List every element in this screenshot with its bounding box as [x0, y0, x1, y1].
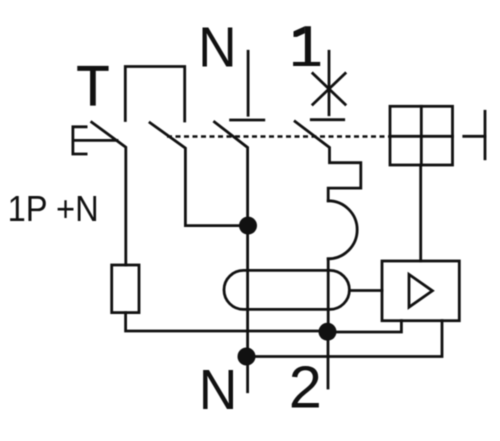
svg-text:T: T	[76, 54, 109, 117]
svg-text:1P +N: 1P +N	[8, 189, 99, 229]
svg-text:N: N	[198, 15, 237, 79]
svg-text:2: 2	[289, 354, 322, 421]
svg-text:N: N	[199, 358, 238, 422]
